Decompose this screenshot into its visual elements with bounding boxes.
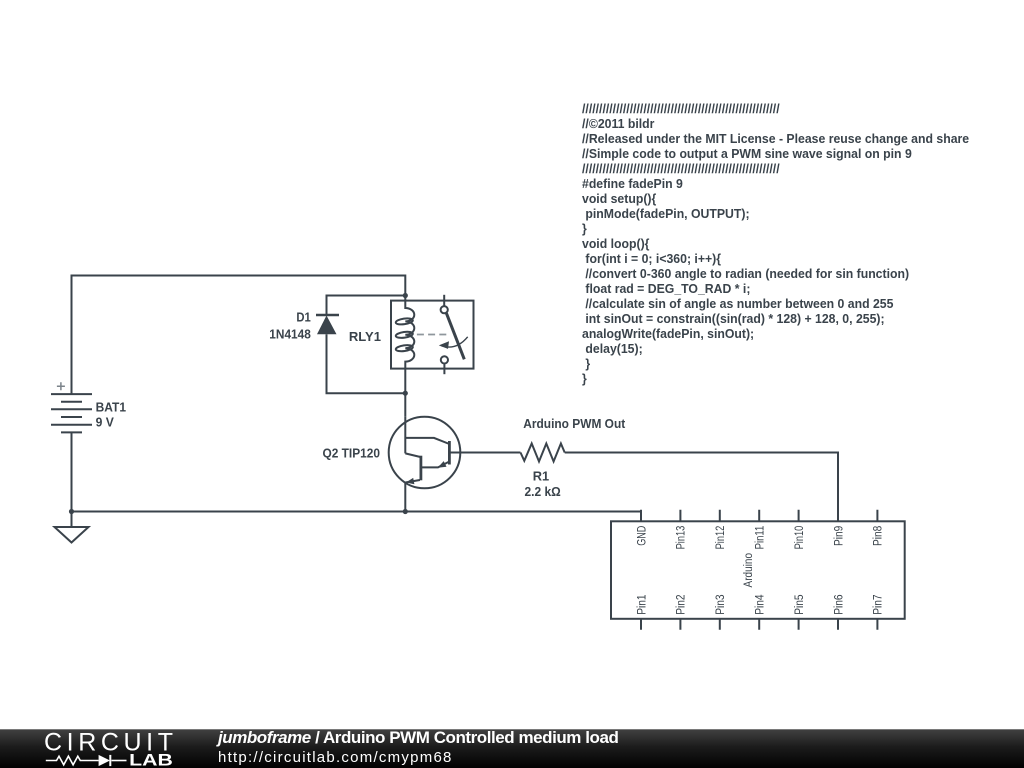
svg-text:RLY1: RLY1 bbox=[349, 329, 381, 344]
battery plus sign bbox=[57, 382, 65, 390]
node junction mid bbox=[403, 391, 408, 396]
wire base to resistor bbox=[449, 452, 520, 454]
battery BAT1 bbox=[51, 394, 92, 432]
svg-text:Pin7: Pin7 bbox=[873, 595, 885, 615]
svg-text:http://circuitlab.com/cmypm68: http://circuitlab.com/cmypm68 bbox=[218, 749, 453, 766]
logo resistor-diode squiggle bbox=[46, 755, 127, 766]
transistor Q2 bbox=[389, 417, 461, 489]
svg-text:2.2 kΩ: 2.2 kΩ bbox=[525, 484, 561, 499]
svg-text:GND: GND bbox=[636, 526, 648, 546]
svg-text:Pin12: Pin12 bbox=[715, 526, 727, 550]
svg-text:Pin6: Pin6 bbox=[833, 595, 845, 615]
svg-text:BAT1: BAT1 bbox=[96, 400, 126, 415]
svg-text:Pin13: Pin13 bbox=[676, 526, 688, 550]
node junction emitter bbox=[403, 509, 408, 514]
svg-text:delay(15);: delay(15); bbox=[585, 342, 642, 356]
svg-text:Pin8: Pin8 bbox=[873, 526, 885, 546]
relay coil bbox=[395, 296, 414, 369]
svg-text:Pin5: Pin5 bbox=[794, 595, 806, 615]
relay switch arrow bbox=[439, 337, 468, 349]
resistor R1 bbox=[521, 444, 565, 462]
Arduino bottom pin stubs bbox=[641, 619, 877, 630]
svg-text://////////////////////////////: ////////////////////////////////////////… bbox=[582, 102, 780, 116]
svg-text:Arduino: Arduino bbox=[743, 553, 755, 588]
svg-text://////////////////////////////: ////////////////////////////////////////… bbox=[582, 162, 780, 176]
diode D1 bbox=[316, 315, 339, 334]
svg-text://convert 0-360 angle to radia: //convert 0-360 angle to radian (needed … bbox=[585, 267, 909, 281]
svg-text://calculate sin of angle as nu: //calculate sin of angle as number betwe… bbox=[585, 297, 893, 311]
svg-text:pinMode(fadePin, OUTPUT);: pinMode(fadePin, OUTPUT); bbox=[585, 207, 749, 221]
svg-text://Simple code to output a PWM: //Simple code to output a PWM sine wave … bbox=[582, 147, 912, 161]
svg-text:int sinOut = constrain((sin(ra: int sinOut = constrain((sin(rad) * 128) … bbox=[585, 312, 884, 326]
wire battery top to relay bbox=[72, 276, 406, 395]
svg-text:Pin10: Pin10 bbox=[794, 526, 806, 550]
relay RLY1 box bbox=[391, 301, 474, 369]
svg-text:Pin9: Pin9 bbox=[833, 526, 845, 546]
wire ground bus bbox=[72, 512, 642, 522]
svg-text:Q2 TIP120: Q2 TIP120 bbox=[323, 445, 381, 460]
svg-text:Pin1: Pin1 bbox=[636, 595, 648, 615]
svg-text:float rad = DEG_TO_RAD * i;: float rad = DEG_TO_RAD * i; bbox=[585, 282, 750, 296]
wire battery bottom bbox=[71, 432, 73, 511]
svg-text:}: } bbox=[582, 222, 587, 236]
svg-text:LAB: LAB bbox=[129, 751, 173, 768]
relay dashed link bbox=[417, 334, 449, 336]
svg-text:void setup(){: void setup(){ bbox=[582, 192, 656, 206]
svg-text:Pin3: Pin3 bbox=[715, 595, 727, 615]
svg-text:1N4148: 1N4148 bbox=[269, 326, 311, 341]
svg-text:#define fadePin 9: #define fadePin 9 bbox=[582, 177, 683, 191]
svg-text:Arduino PWM Out: Arduino PWM Out bbox=[523, 416, 626, 431]
Arduino U1 box bbox=[611, 521, 905, 619]
footer bar bbox=[0, 729, 1024, 768]
code block bbox=[582, 102, 969, 386]
svg-text:Pin11: Pin11 bbox=[755, 526, 767, 550]
transistor arrows bbox=[406, 461, 447, 484]
wire diode top branch bbox=[327, 296, 406, 316]
wire relay to transistor bbox=[404, 369, 406, 417]
node junction top bbox=[403, 293, 408, 298]
svg-text:R1: R1 bbox=[533, 469, 549, 484]
svg-text:9 V: 9 V bbox=[96, 415, 115, 430]
wire diode bottom branch bbox=[327, 334, 406, 393]
svg-text:analogWrite(fadePin, sinOut);: analogWrite(fadePin, sinOut); bbox=[582, 327, 754, 341]
wire resistor to pin9 bbox=[565, 453, 838, 522]
svg-text://Released under the MIT Licen: //Released under the MIT License - Pleas… bbox=[582, 132, 969, 146]
node junction ground-left bbox=[69, 509, 74, 514]
wire transistor emitter down bbox=[404, 483, 406, 512]
svg-text:jumboframe / Arduino PWM Contr: jumboframe / Arduino PWM Controlled medi… bbox=[216, 728, 618, 747]
svg-text:}: } bbox=[585, 357, 590, 371]
svg-text:Pin4: Pin4 bbox=[755, 594, 767, 615]
Arduino top pin stubs bbox=[641, 510, 877, 522]
svg-text:}: } bbox=[582, 372, 587, 386]
relay switch bbox=[441, 295, 465, 374]
svg-text://©2011 bildr: //©2011 bildr bbox=[582, 117, 655, 131]
svg-text:for(int i = 0; i<360; i++){: for(int i = 0; i<360; i++){ bbox=[585, 252, 721, 266]
ground bbox=[55, 512, 89, 543]
svg-text:Pin2: Pin2 bbox=[676, 595, 688, 615]
svg-text:D1: D1 bbox=[296, 310, 310, 325]
svg-text:void loop(){: void loop(){ bbox=[582, 237, 650, 251]
